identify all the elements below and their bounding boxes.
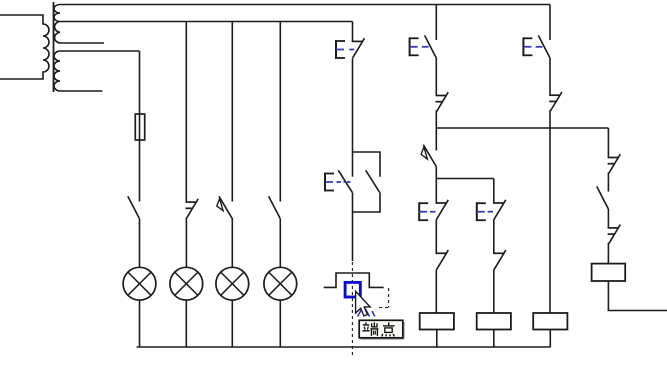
- wire lamp HL4 to bottom rail: [279, 300, 281, 347]
- wire coil KA1 to right edge: [608, 281, 667, 311]
- contact KM3b (NC): [608, 154, 621, 173]
- fuse FU1: [135, 114, 144, 140]
- wire KM3a through control rail to coil KM3: [549, 110, 551, 313]
- contact KM1a (NC): [436, 92, 449, 111]
- wire column 1 drop (through fuse): [139, 51, 141, 202]
- wire branch to column B: [436, 178, 494, 180]
- switch SB2 label E-: [325, 173, 351, 192]
- wire switch SA3 to lamp HL3: [231, 218, 233, 268]
- pushbutton SB3 label E-: [409, 37, 429, 56]
- wire control rail: [436, 127, 608, 129]
- wire SB6 to contact KM3a: [549, 58, 551, 95]
- transformer T1 primary winding: [0, 15, 49, 79]
- pushbutton SB5 contact (NC): [493, 200, 506, 220]
- snap ticks (blue): [358, 309, 375, 317]
- selection dashed box: [379, 288, 391, 308]
- wire top rail corner down at x=550: [549, 5, 551, 41]
- contact KM1b (NC): [493, 250, 506, 270]
- pushbutton SB1 label E-: [336, 40, 355, 59]
- pushbutton SB3 blade (NO): [425, 35, 437, 58]
- pushbutton SB6 label E-: [523, 37, 543, 56]
- wire stub from winding W2 bottom: [60, 90, 103, 92]
- wire from winding W2 top to fuse column: [60, 50, 140, 52]
- wire switch SA4 to lamp HL4: [279, 219, 281, 268]
- wire control rail to switch SQ1: [435, 128, 437, 151]
- node endpoint osnap marker (blue square): [345, 282, 360, 297]
- switch SQ1 blade (pull-cord switch): [421, 145, 436, 167]
- pushbutton SB6 blade (NO): [538, 35, 550, 58]
- switch SQ2 blade (NO): [597, 186, 609, 209]
- wire switch SA2 to lamp HL2: [185, 218, 187, 268]
- wire terminal notch: [324, 273, 384, 287]
- wire bottom rail N: [137, 346, 551, 348]
- lamp HL1: [123, 267, 156, 300]
- wire SB1 to double switch SB2: [352, 59, 354, 177]
- relay coil KM1: [420, 313, 454, 330]
- wire column B drop from branch: [493, 179, 495, 204]
- transformer T1 secondary winding W1 (center-tapped): [54, 5, 60, 44]
- switch SB2 pole B return wire: [353, 193, 381, 212]
- wire coil KM3 to bottom rail: [549, 330, 551, 348]
- wire lamp HL3 to bottom rail: [231, 300, 233, 347]
- relay coil KM2: [477, 313, 511, 330]
- wire SQ1 down / branch node: [435, 167, 437, 203]
- wire KM3b to switch SQ2: [607, 172, 609, 191]
- switch SA2 contact (NC): [186, 199, 199, 218]
- tooltip text 点 (glyph strokes): [382, 322, 395, 336]
- wire column 2 drop from rail L2: [185, 22, 187, 203]
- contact KM3a (NC): [549, 92, 562, 111]
- switch SB2 pole B blade (NO): [366, 170, 380, 192]
- wire KM1a to control rail: [435, 110, 437, 128]
- wire control rail corner down at x=608.4: [607, 128, 609, 158]
- tooltip text 端 (glyph strokes): [362, 322, 378, 336]
- switch SA1 blade (NO): [128, 196, 140, 219]
- crosshair dashed vertical: [351, 262, 353, 358]
- wire switch SA1 to lamp HL1: [139, 219, 141, 268]
- wire SQ2 to contact KM4a: [607, 209, 609, 228]
- wire rail L2 (winding W1 center tap to x=352.5): [60, 21, 353, 23]
- wire coil KM2 to bottom rail: [493, 330, 495, 348]
- wire SB4 to contact KM2a: [435, 220, 437, 253]
- wire top rail L1 (winding W1 top to x=550): [60, 4, 550, 6]
- wire column 3 drop from rail L2: [231, 22, 233, 202]
- wire lamp HL2 to bottom rail: [185, 300, 187, 347]
- relay coil KM3: [533, 313, 567, 330]
- lamp HL2: [170, 267, 203, 300]
- pushbutton SB5 label E-: [476, 202, 493, 221]
- wire KM4a to coil KA1: [607, 243, 609, 264]
- mouse cursor arrow: [356, 291, 371, 316]
- wire column A drop from top rail: [435, 5, 437, 41]
- wire coil KM1 to bottom rail: [436, 330, 438, 348]
- wire KM1b to coil KM2: [493, 270, 495, 313]
- wire column 4 drop from rail L2: [279, 22, 281, 202]
- pushbutton SB1 contact (NC): [352, 38, 365, 58]
- switch SA3 blade (pull-cord switch): [217, 196, 232, 218]
- lamp HL3: [216, 267, 249, 300]
- wire SB5 to contact KM1b: [493, 220, 495, 253]
- pushbutton SB4 contact (NC): [436, 200, 449, 220]
- wire SB3 to contact KM1a: [435, 58, 437, 96]
- transformer T1 secondary winding W2: [54, 51, 60, 91]
- contact KM4a (NC): [608, 225, 621, 244]
- lamp HL4: [264, 267, 297, 300]
- switch SB2 pole B branch wire: [353, 152, 381, 177]
- wire KM2a to coil KM1: [435, 270, 437, 313]
- switch SB2 pole A blade (NO): [338, 170, 352, 192]
- relay coil KA1: [592, 264, 626, 281]
- wire SB2 to cut endpoint: [352, 193, 354, 261]
- pushbutton SB4 label E-: [419, 202, 436, 221]
- wire stub from winding W1 bottom: [60, 42, 104, 44]
- switch SA4 blade (NO): [269, 196, 281, 219]
- contact KM2a (NC): [436, 250, 449, 270]
- wire rail L2 corner down to pushbutton SB1: [352, 22, 354, 42]
- wire lamp HL1 to bottom rail: [139, 300, 141, 347]
- tooltip box: [359, 320, 403, 338]
- transformer T1 core: [53, 2, 55, 92]
